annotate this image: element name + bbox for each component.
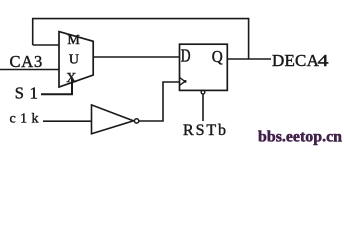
svg-text:CA3: CA3 xyxy=(10,52,44,71)
svg-text:bbs.eetop.cn: bbs.eetop.cn xyxy=(258,129,342,146)
svg-text:X: X xyxy=(66,71,76,86)
svg-text:M: M xyxy=(67,33,80,48)
svg-text:S1: S1 xyxy=(15,84,44,103)
svg-text:DECA: DECA xyxy=(272,51,320,70)
svg-text:RSTb: RSTb xyxy=(183,122,228,139)
svg-text:U: U xyxy=(69,52,79,67)
svg-text:Q: Q xyxy=(212,47,223,66)
svg-text:c1k: c1k xyxy=(10,112,43,127)
svg-text:D: D xyxy=(181,46,191,66)
svg-text:4: 4 xyxy=(318,51,330,70)
